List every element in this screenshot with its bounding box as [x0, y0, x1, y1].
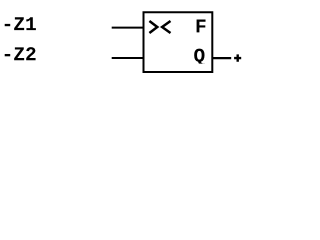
wire input 1 from -Z1 to block [112, 27, 144, 29]
node label -Z1 [5, 17, 36, 30]
node label -Z2 [5, 47, 36, 60]
function block body (rectangle) [144, 12, 213, 72]
chevron symbol &lt; (left-pointing) [162, 21, 170, 33]
pin label Q [194, 49, 204, 66]
wire output from Q pin [212, 57, 231, 59]
pin label F [197, 20, 206, 33]
wire input 2 from -Z2 to block [112, 57, 144, 59]
chevron symbol &gt; (right-pointing) [149, 21, 157, 33]
plus polarity sign at output [234, 54, 241, 61]
